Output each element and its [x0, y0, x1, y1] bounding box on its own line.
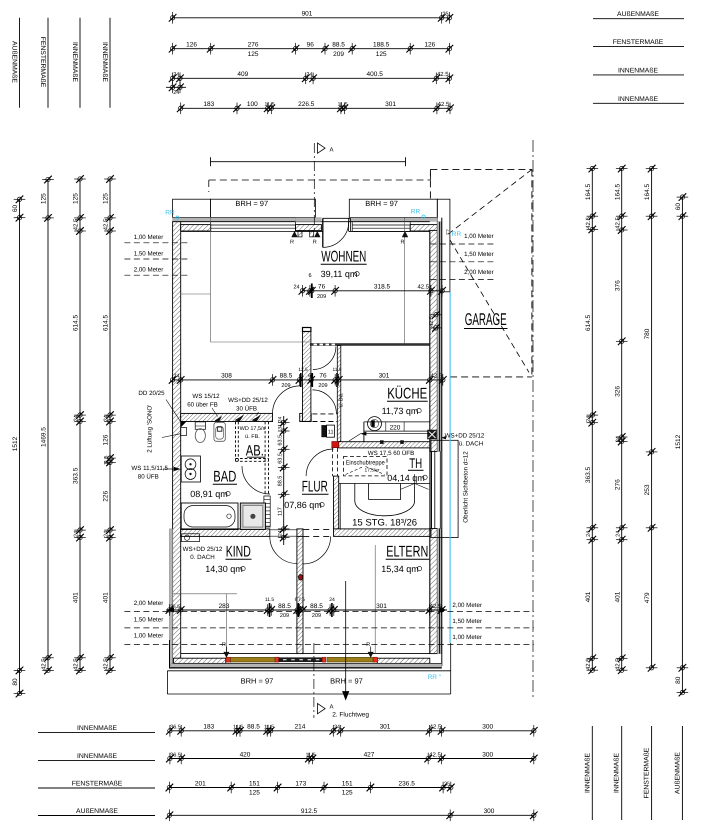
svg-text:209: 209 [312, 613, 321, 619]
svg-text:24: 24 [74, 415, 80, 421]
svg-text:30 ÜFB: 30 ÜFB [236, 405, 257, 413]
svg-text:376: 376 [614, 280, 621, 291]
svg-text:96: 96 [307, 42, 315, 49]
svg-text:24: 24 [173, 72, 179, 78]
svg-text:2 Lüftung 'SONO': 2 Lüftung 'SONO' [147, 405, 154, 453]
svg-text:214: 214 [295, 724, 306, 731]
svg-text:24: 24 [104, 531, 110, 537]
svg-text:FLUR: FLUR [302, 479, 328, 496]
header labels top-right [593, 18, 684, 20]
svg-text:318.5: 318.5 [374, 284, 391, 291]
svg-text:42.5: 42.5 [41, 658, 48, 670]
svg-text:15 STG. 18³/26: 15 STG. 18³/26 [352, 518, 417, 529]
svg-text:1,50 Meter: 1,50 Meter [134, 616, 164, 623]
svg-text:INNENMAßE: INNENMAßE [614, 753, 621, 793]
svg-text:WD 17,5/s: WD 17,5/s [240, 426, 266, 432]
wall stub between KIND and ELTERN doors [297, 529, 303, 537]
door arc corridor west door [273, 386, 301, 414]
svg-text:88.5: 88.5 [310, 603, 323, 610]
svg-text:12.5: 12.5 [298, 367, 308, 373]
washing appliance bottom-left of BAD [182, 534, 200, 542]
svg-text:283: 283 [219, 603, 230, 610]
dimension column left 2 [47, 180, 49, 671]
svg-text:126: 126 [103, 434, 110, 445]
svg-text:24: 24 [74, 531, 80, 537]
svg-text:24: 24 [173, 374, 179, 380]
svg-text:AUßENMAßE: AUßENMAßE [617, 11, 659, 18]
svg-text:42.5: 42.5 [614, 658, 621, 670]
room area outline KIND (thin) [173, 593, 237, 595]
svg-text:36.5: 36.5 [170, 752, 181, 758]
svg-text:88.5: 88.5 [247, 724, 260, 731]
kitchen counter [364, 421, 430, 423]
svg-text:2,00 Meter: 2,00 Meter [452, 602, 482, 609]
svg-text:2. Fluchtweg: 2. Fluchtweg [332, 712, 369, 719]
svg-text:AUßENMAßE: AUßENMAßE [76, 808, 118, 815]
svg-text:401: 401 [614, 591, 621, 602]
svg-text:INNENMAßE: INNENMAßE [71, 42, 78, 82]
svg-text:Oberlicht Sichtbeton d=12: Oberlicht Sichtbeton d=12 [463, 451, 470, 523]
TH west wall lower (hatched) [334, 476, 339, 529]
section line A top [313, 143, 315, 232]
svg-text:301: 301 [379, 373, 390, 380]
stair direction marks [401, 484, 415, 490]
svg-text:25: 25 [442, 12, 448, 18]
bottom window sills: red caps and timber bars [226, 657, 231, 662]
black fitting squares on kitchen wall [380, 440, 384, 444]
svg-text:FENSTERMAßE: FENSTERMAßE [644, 747, 651, 798]
svg-text:FENSTERMAßE: FENSTERMAßE [613, 39, 664, 46]
toilet [195, 422, 205, 429]
dimension column right 3 [651, 169, 653, 668]
svg-text:42.5: 42.5 [585, 658, 592, 670]
svg-text:24: 24 [615, 436, 621, 442]
svg-text:11.5: 11.5 [264, 725, 274, 731]
svg-text:08,91 qm: 08,91 qm [190, 489, 228, 499]
svg-text:11.5: 11.5 [333, 367, 342, 373]
svg-text:125: 125 [342, 790, 353, 797]
svg-text:AUßENMAßE: AUßENMAßE [11, 41, 18, 83]
svg-text:60: 60 [12, 205, 19, 213]
svg-text:24: 24 [586, 531, 592, 537]
svg-text:2,00 Meter: 2,00 Meter [134, 600, 164, 607]
dimension column right 1 [591, 169, 593, 671]
svg-text:125: 125 [249, 790, 260, 797]
svg-text:KÜCHE: KÜCHE [387, 386, 427, 403]
svg-text:276: 276 [614, 479, 621, 490]
east sill box top-right corner [437, 199, 450, 292]
dimension chain through KIND/ELTERN [166, 609, 447, 611]
dimension chain mid plan [173, 379, 443, 381]
svg-text:912.5: 912.5 [301, 808, 318, 815]
dashed roof overhang line above top wall [209, 179, 406, 181]
svg-text:1,50 Meter: 1,50 Meter [134, 250, 164, 257]
svg-text:209: 209 [318, 383, 327, 389]
entrance canopy / Oberlicht box outside TH [431, 440, 458, 537]
svg-text:164.5: 164.5 [614, 183, 621, 200]
svg-text:300: 300 [482, 724, 493, 731]
svg-text:409: 409 [237, 71, 248, 78]
svg-text:WS 11,5/11,5: WS 11,5/11,5 [131, 465, 168, 472]
stair TH outline [339, 483, 430, 485]
svg-text:117: 117 [277, 507, 283, 516]
svg-text:6: 6 [308, 273, 311, 279]
svg-text:42.5: 42.5 [585, 217, 592, 229]
svg-text:209: 209 [281, 383, 290, 389]
svg-text:151: 151 [342, 780, 353, 787]
dimension row top 3 (inner dims) [173, 77, 450, 79]
svg-text:24: 24 [277, 530, 283, 536]
dimension column left 4 [109, 179, 111, 671]
svg-text:60 über FB: 60 über FB [187, 402, 218, 409]
span bracket above plan [211, 161, 406, 163]
svg-text:24: 24 [334, 725, 340, 731]
svg-text:301: 301 [385, 101, 396, 108]
svg-text:ELTERN: ELTERN [386, 544, 428, 561]
svg-text:24: 24 [293, 285, 299, 291]
svg-text:188.5: 188.5 [373, 42, 390, 49]
svg-text:WOHNEN: WOHNEN [321, 249, 366, 266]
svg-text:RR: RR [411, 209, 421, 216]
svg-text:88.5: 88.5 [332, 42, 345, 49]
svg-text:0. DACH: 0. DACH [190, 554, 214, 561]
svg-text:15,34 qm: 15,34 qm [381, 564, 419, 574]
D11 door tag [321, 425, 326, 437]
svg-text:300: 300 [484, 808, 495, 815]
svg-text:11.5: 11.5 [265, 597, 275, 603]
svg-text:A: A [330, 704, 334, 711]
grey insulation band below bottom wall [171, 664, 442, 668]
header labels bottom-left [38, 732, 155, 734]
svg-text:100: 100 [247, 101, 258, 108]
svg-text:125: 125 [103, 193, 110, 204]
vertical centre line right (dash-dot) [532, 140, 534, 697]
svg-text:42.5: 42.5 [429, 316, 435, 327]
svg-text:201: 201 [195, 780, 206, 787]
dimension column right 2 [621, 169, 623, 671]
svg-text:24: 24 [104, 415, 110, 421]
svg-text:209: 209 [317, 294, 326, 300]
dashed passage in wall below corridor [312, 413, 337, 415]
svg-text:427: 427 [364, 751, 375, 758]
room area line ELTERN (thin) [374, 545, 376, 654]
shower [240, 503, 265, 530]
grey lintel bars over top windows [173, 218, 316, 222]
thin partition WOHNEN / KUECHE corridor [310, 344, 430, 346]
svg-text:125: 125 [73, 193, 80, 204]
exterior wall right (hatched, TH door opening) [430, 230, 438, 451]
svg-text:614.5: 614.5 [103, 314, 110, 331]
svg-text:INNENMAßE: INNENMAßE [618, 67, 658, 74]
svg-text:42.5: 42.5 [429, 751, 441, 758]
wall KUECHE / TH (hatched) with red core [339, 442, 430, 448]
R markers top wall (Rettungsweg) [291, 231, 297, 237]
exterior wall bottom segments (hatched) [174, 658, 226, 663]
svg-text:39,11 qm: 39,11 qm [321, 269, 358, 279]
interior wall KIND / ELTERN (hatched) [297, 536, 303, 653]
svg-text:88.5: 88.5 [277, 476, 283, 487]
garage roof diagonals dashed [447, 169, 532, 235]
svg-text:DD 20/25: DD 20/25 [138, 390, 165, 397]
svg-text:AUßENMAßE: AUßENMAßE [674, 752, 681, 794]
svg-text:ü. DACH: ü. DACH [459, 441, 483, 448]
svg-text:80 ÜFB: 80 ÜFB [138, 473, 159, 481]
door arc BAD [242, 466, 270, 494]
svg-text:614.5: 614.5 [73, 314, 80, 331]
svg-text:401: 401 [73, 592, 80, 603]
added insulation strip bottom-left [169, 529, 172, 666]
svg-text:301: 301 [376, 603, 387, 610]
svg-text:24: 24 [173, 90, 179, 96]
svg-text:BRH = 97: BRH = 97 [235, 199, 268, 208]
svg-text:901: 901 [302, 11, 313, 18]
svg-text:1,00 Meter: 1,00 Meter [134, 234, 164, 241]
svg-text:1,00 Meter: 1,00 Meter [452, 634, 482, 641]
door opening dashes in thin partition [314, 344, 318, 346]
svg-text:125: 125 [248, 51, 259, 58]
exterior wall top segments (hatched) [181, 225, 211, 231]
door arc corridor east door [312, 390, 336, 414]
svg-text:420: 420 [240, 751, 251, 758]
svg-text:76: 76 [318, 284, 326, 291]
door arc FLUR to TH [306, 449, 333, 476]
svg-text:363.5: 363.5 [73, 467, 80, 484]
svg-text:236.5: 236.5 [399, 780, 416, 787]
svg-text:42.5: 42.5 [614, 217, 621, 229]
svg-text:1512: 1512 [675, 434, 682, 449]
dimension chain inside WOHNEN [302, 290, 442, 292]
svg-text:125: 125 [376, 51, 387, 58]
svg-text:42.5: 42.5 [430, 373, 442, 380]
svg-text:R: R [290, 240, 294, 246]
svg-text:42.5: 42.5 [73, 658, 80, 670]
svg-text:BRH = 97: BRH = 97 [241, 677, 274, 686]
svg-text:04,14 qm: 04,14 qm [387, 473, 425, 483]
room area outline WOHNEN (thin) [210, 218, 212, 342]
svg-text:401: 401 [585, 591, 592, 602]
escape route arrow [345, 581, 347, 696]
svg-text:226.5: 226.5 [298, 101, 315, 108]
red marker on KIND/ELTERN wall [298, 575, 302, 581]
svg-text:R: R [313, 240, 317, 246]
svg-text:1,00 Meter: 1,00 Meter [464, 233, 494, 240]
svg-text:11.5: 11.5 [305, 752, 315, 758]
svg-text:164.5: 164.5 [585, 183, 592, 200]
svg-text:A: A [330, 147, 334, 154]
svg-text:FENSTERMAßE: FENSTERMAßE [39, 37, 46, 88]
svg-text:80: 80 [12, 678, 19, 686]
TH west wall: dashed upper part [332, 448, 334, 476]
cyan gutter line east [449, 292, 451, 643]
svg-text:BRH = 97: BRH = 97 [330, 677, 363, 686]
exterior wall left (hatched) [173, 222, 181, 666]
dimension row top 4 (inner dims) [181, 107, 450, 109]
extra 24 tick pair below row 3 left [169, 82, 177, 94]
svg-text:164.5: 164.5 [644, 183, 651, 200]
Einschubtreppe dashed box [344, 457, 388, 476]
svg-text:126: 126 [186, 42, 197, 49]
svg-text:INNENMAßE: INNENMAßE [77, 753, 117, 760]
svg-text:6: 6 [308, 373, 311, 379]
svg-text:Einschubtreppe: Einschubtreppe [346, 460, 386, 467]
svg-text:WS 17,5 60 ÜFB: WS 17,5 60 ÜFB [368, 449, 414, 457]
svg-text:FENSTERMAßE: FENSTERMAßE [72, 781, 123, 788]
svg-text:42.5: 42.5 [103, 218, 110, 230]
bottom centre door sill (dark with dashes) [279, 658, 322, 662]
svg-text:42.5: 42.5 [438, 101, 450, 108]
dimension column left 1 [19, 199, 21, 693]
svg-text:24: 24 [277, 417, 283, 423]
svg-text:TH: TH [409, 455, 422, 471]
roof overhang / sill boxes along top wall [173, 199, 211, 217]
header labels bottom-right [591, 726, 593, 820]
svg-text:25: 25 [444, 781, 450, 787]
svg-text:1469.5: 1469.5 [41, 427, 48, 447]
thin lines across KIND door opening [270, 529, 297, 531]
svg-text:WS 15/12: WS 15/12 [192, 393, 220, 400]
dimension row bottom 2 [170, 758, 534, 760]
svg-text:2,00 Meter: 2,00 Meter [134, 267, 164, 274]
svg-text:173: 173 [295, 780, 306, 787]
svg-text:88.5: 88.5 [278, 603, 291, 610]
dimension row top 2 (window dims) [173, 48, 450, 50]
svg-text:151: 151 [249, 780, 260, 787]
svg-text:24: 24 [586, 416, 592, 422]
svg-text:ü. Da.: ü. Da. [339, 392, 345, 407]
svg-text:126: 126 [424, 42, 435, 49]
svg-text:42.5: 42.5 [103, 658, 110, 670]
interior wall stub FLUR west top [303, 332, 311, 422]
dimension row top 1 (901) [173, 17, 450, 19]
dashed opening ELTERN doorway [303, 529, 331, 531]
svg-text:INNENMAßE: INNENMAßE [584, 753, 591, 793]
svg-text:R: R [366, 642, 370, 648]
door arc ELTERN [303, 536, 331, 564]
svg-text:479: 479 [644, 592, 651, 603]
svg-text:GARAGE: GARAGE [465, 310, 507, 329]
dimension row bottom 4 (outer dim) [169, 814, 533, 816]
washbasin BAD [181, 456, 200, 482]
garage dashed outline [430, 168, 532, 170]
svg-text:17,5/er: 17,5/er [365, 468, 380, 474]
svg-text:KIND: KIND [226, 544, 251, 561]
svg-text:1,50 Meter: 1,50 Meter [464, 251, 494, 258]
svg-text:RR °: RR ° [428, 674, 442, 681]
entrance door leaf [322, 218, 324, 247]
svg-text:14,30 qm: 14,30 qm [205, 564, 243, 574]
AB. closet dashed partitions (track style) [235, 422, 237, 462]
svg-text:INNENMAßE: INNENMAßE [77, 725, 117, 732]
dimension column right 4 [681, 197, 683, 692]
svg-text:31: 31 [277, 424, 283, 430]
wall TH / ELTERN (hatched) [334, 529, 430, 537]
svg-text:253: 253 [644, 484, 651, 495]
arrows at ends of KIND chain [166, 608, 174, 613]
dimension column left 3 [79, 179, 81, 671]
svg-text:2,00 Meter: 2,00 Meter [464, 269, 494, 276]
svg-text:209: 209 [280, 613, 289, 619]
svg-text:11: 11 [328, 430, 334, 436]
door arc KIND [270, 536, 297, 563]
svg-text:301: 301 [380, 724, 391, 731]
svg-text:RR: RR [165, 210, 175, 217]
svg-text:WS+DD 25/12: WS+DD 25/12 [228, 397, 268, 404]
svg-text:1,50 Meter: 1,50 Meter [452, 618, 482, 625]
svg-text:R: R [401, 240, 405, 246]
svg-text:125: 125 [41, 193, 48, 204]
svg-text:308: 308 [221, 373, 232, 380]
svg-text:300: 300 [482, 751, 493, 758]
svg-text:WS+DD 25/12: WS+DD 25/12 [183, 546, 223, 553]
svg-text:11,73 qm: 11,73 qm [382, 406, 419, 416]
svg-text:INNENMAßE: INNENMAßE [618, 96, 658, 103]
svg-text:1,00 Meter: 1,00 Meter [134, 633, 164, 640]
svg-text:07,86 qm: 07,86 qm [284, 500, 322, 510]
svg-text:42.5: 42.5 [437, 71, 449, 78]
svg-text:BRH = 97: BRH = 97 [365, 199, 398, 208]
door arc corridor (upper FLUR) [313, 347, 336, 370]
svg-text:42.5: 42.5 [417, 284, 429, 291]
interior wall between WOHNEN and BAD (hatched) [181, 413, 273, 421]
svg-text:76: 76 [319, 373, 327, 380]
thick tick marks mid chain [300, 373, 302, 387]
svg-text:ü. FB.: ü. FB. [245, 434, 260, 440]
svg-text:209: 209 [333, 51, 344, 58]
svg-text:326: 326 [614, 386, 621, 397]
svg-text:80: 80 [675, 676, 682, 684]
thin wall KUECHE west (hatched) [337, 346, 341, 442]
top wall pier with door jamb (hatched) [296, 225, 322, 231]
TH exterior door glazing lines [431, 451, 433, 528]
svg-text:400.5: 400.5 [367, 71, 384, 78]
svg-text:42.5: 42.5 [430, 724, 442, 731]
red wall element left of KUECHE/TH wall [332, 442, 339, 448]
header labels top-left (Aussenmasse/Fenstermasse/Innenmasse) [19, 18, 21, 108]
svg-text:11.5: 11.5 [337, 102, 347, 108]
bottom roof-overhang strip [167, 670, 450, 672]
svg-text:220: 220 [390, 424, 401, 431]
svg-text:RR: RR [452, 231, 462, 238]
svg-text:42.5: 42.5 [73, 218, 80, 230]
svg-text:7.5: 7.5 [298, 597, 305, 603]
bathtub [181, 503, 238, 530]
door arc entrance top [323, 221, 349, 247]
svg-text:11.5: 11.5 [264, 102, 274, 108]
dimension chain vertical FLUR [283, 416, 285, 545]
svg-text:24: 24 [615, 531, 621, 537]
svg-text:183: 183 [203, 724, 214, 731]
svg-text:36.5: 36.5 [170, 725, 181, 731]
radiator / ladder strip below AB [264, 496, 270, 527]
section line A bottom + 2. Fluchtweg [313, 643, 315, 718]
svg-text:63.5: 63.5 [277, 453, 283, 464]
thick ticks KIND chain [269, 603, 271, 617]
svg-text:WS+DD 25/12: WS+DD 25/12 [445, 433, 485, 440]
dimension row bottom 1 [170, 730, 534, 732]
svg-text:24: 24 [306, 72, 312, 78]
wall BAD / KIND (hatched) [181, 529, 270, 537]
svg-text:BAD: BAD [213, 469, 236, 486]
svg-text:226: 226 [103, 490, 110, 501]
svg-text:11.5: 11.5 [233, 725, 243, 731]
dark fitting square on east wall at kitchen [428, 430, 437, 439]
svg-text:183: 183 [203, 101, 214, 108]
svg-text:780: 780 [644, 328, 651, 339]
thick tick 6 in WOHNEN chain [311, 284, 313, 299]
svg-text:401: 401 [103, 592, 110, 603]
svg-text:INNENMAßE: INNENMAßE [101, 42, 108, 82]
svg-text:614.5: 614.5 [585, 314, 592, 331]
